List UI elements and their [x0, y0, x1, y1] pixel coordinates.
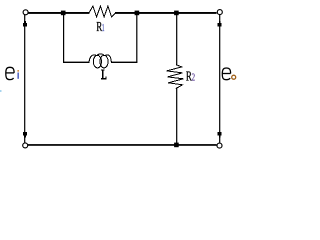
inductor L loop 2: [100, 55, 108, 68]
terminal top left: [23, 10, 28, 15]
wire eo vertical: [219, 15, 220, 143]
resistor R2: [167, 65, 184, 89]
inductor L exit arc: [106, 55, 111, 62]
svg-text:2: 2: [192, 72, 196, 83]
arrowhead ei down: [23, 132, 27, 135]
node junction bottom R2: [174, 143, 179, 148]
wire inductor branch right horizontal: [111, 62, 137, 63]
wire inductor branch left horizontal: [63, 62, 89, 63]
node junction top R2: [174, 11, 179, 16]
node junction top middle: [135, 11, 140, 16]
wire inductor branch left vertical: [63, 13, 64, 62]
stray mark left edge: [0, 90, 2, 92]
svg-text:1: 1: [102, 23, 105, 34]
label ei glyph e: [6, 67, 14, 79]
label L drawn: [101, 70, 106, 80]
arrowhead eo down: [218, 132, 222, 135]
resistor R1: [89, 6, 115, 17]
wire R2 bottom vertical: [176, 88, 177, 145]
label eo subscript o: [232, 75, 236, 79]
inductor L entry arc: [89, 55, 95, 62]
label eo glyph e: [222, 68, 230, 80]
terminal bottom left: [23, 143, 28, 148]
arrowhead ei up: [24, 21, 26, 23]
wire R2 top vertical: [176, 13, 177, 65]
wire top left segment: [28, 12, 89, 14]
node junction top left: [61, 11, 66, 16]
terminal top right: [217, 10, 222, 15]
wire bottom: [28, 144, 217, 146]
wire ei vertical: [24, 15, 25, 143]
arrowhead eo up: [219, 21, 221, 23]
wire top right segment: [115, 12, 217, 14]
terminal bottom right: [217, 143, 222, 148]
label ei subscript i: [18, 70, 19, 79]
inductor L loop 1: [93, 55, 101, 68]
inductor L bridge arc: [97, 54, 104, 55]
wire inductor branch right vertical: [136, 13, 137, 62]
